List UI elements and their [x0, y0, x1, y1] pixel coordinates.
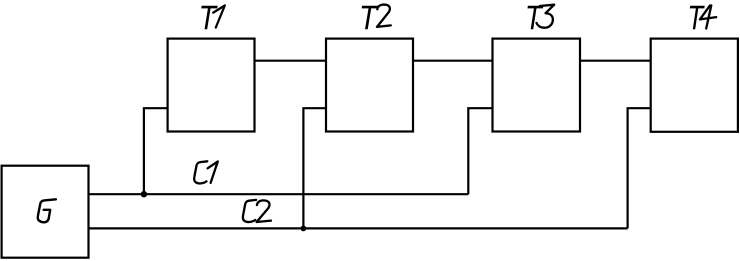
wire T1 drop to C1: [144, 108, 168, 194]
wire T3 drop to C1 end: [468, 108, 492, 194]
transformer block T3: [493, 39, 581, 132]
bus C1: [89, 193, 469, 195]
wire T2 to T3: [413, 60, 493, 62]
label T1: [201, 6, 225, 30]
label T4: [690, 5, 716, 29]
label G: [38, 199, 56, 222]
wire T2 drop to C2: [303, 108, 326, 228]
wire T4 drop to C2 end: [628, 108, 651, 228]
label C2: [243, 200, 271, 222]
label C1: [194, 161, 218, 183]
wire T1 to T2: [255, 60, 327, 62]
bus C2: [89, 227, 628, 229]
transformer block T1: [168, 39, 255, 132]
generator block G: [2, 166, 89, 258]
label T2: [362, 5, 391, 30]
transformer block T4: [651, 39, 738, 132]
transformer block T2: [326, 39, 413, 132]
junction dot on C2 at T2 drop: [301, 226, 307, 232]
junction dot on C1 at T1 drop: [141, 191, 147, 197]
wire T3 to T4: [580, 60, 651, 62]
label T3: [527, 5, 554, 30]
